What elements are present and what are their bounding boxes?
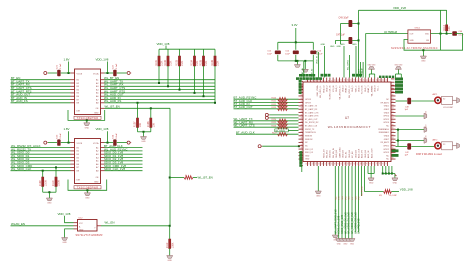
- svg-text:37: 37: [301, 118, 303, 120]
- svg-text:X3: X3: [443, 144, 445, 146]
- svg-text:81: 81: [392, 98, 394, 100]
- IC U4 pin stubs left: [71, 147, 75, 149]
- wire chip2 left WL_SDIO_D1: [11, 157, 71, 159]
- svg-text:TXS0108EPWR: TXS0108EPWR: [77, 186, 99, 189]
- svg-text:BT_AUD_CLK: BT_AUD_CLK: [305, 125, 318, 128]
- resistor series R123: [278, 107, 288, 110]
- power rail VDD_1V8 pullups: [159, 48, 215, 50]
- svg-text:16: 16: [354, 79, 356, 81]
- wire VCCA chip2 to VDD: [105, 142, 114, 144]
- svg-text:R126: R126: [272, 125, 277, 127]
- svg-text:TMSBTMOS: TMSBTMOS: [305, 132, 316, 134]
- svg-text:OSC1: OSC1: [415, 28, 422, 30]
- resistor R113 10K: [446, 25, 448, 31]
- IC U3 pin stubs left: [71, 79, 75, 81]
- svg-text:VBAT_3: VBAT_3: [367, 85, 370, 93]
- IC U7 pin stubs bottom: [307, 162, 309, 167]
- svg-text:52: 52: [309, 163, 311, 165]
- svg-text:95: 95: [392, 144, 394, 146]
- svg-text:DNP if WL1801 is used: DNP if WL1801 is used: [416, 153, 442, 156]
- svg-text:U.FL-R-SMT: U.FL-R-SMT: [443, 107, 454, 109]
- wire chip2 right SDIO_D2_1V8: [105, 160, 143, 162]
- svg-text:VDD_1V8: VDD_1V8: [96, 58, 109, 62]
- wire chip1 OE down to WL_EN: [169, 108, 171, 226]
- wire BT_AUD_CLK into U7: [234, 101, 299, 103]
- IC U3 pin stubs right: [101, 79, 105, 81]
- port stub BT_AUD 2: [265, 116, 268, 119]
- svg-text:SDIO_D2: SDIO_D2: [305, 149, 313, 151]
- svg-text:GPIO4: GPIO4: [383, 116, 389, 118]
- svg-text:GPIO5: GPIO5: [383, 119, 389, 121]
- svg-text:GND: GND: [337, 46, 342, 48]
- svg-text:WL_EN_IN: WL_EN_IN: [333, 147, 335, 158]
- svg-text:44: 44: [301, 141, 303, 143]
- svg-text:26: 26: [386, 79, 388, 81]
- svg-text:WL_AUD_FS: WL_AUD_FS: [104, 99, 121, 103]
- wire RF_ANT2: [396, 145, 408, 147]
- wire WL_GPIO to U7 top: [349, 55, 351, 78]
- svg-text:GPIO6: GPIO6: [383, 122, 389, 124]
- svg-text:GND GND: GND GND: [368, 65, 377, 67]
- capacitor C49 10uF: [358, 23, 360, 25]
- wire chip2 left WL_RS232_TX: [11, 150, 71, 152]
- IC U7 pin stubs top: [307, 78, 309, 83]
- svg-text:83: 83: [392, 104, 394, 106]
- wire WL_EN output: [101, 225, 170, 227]
- wire pulldown join chip2: [43, 191, 56, 193]
- svg-text:RF_ANT2: RF_ANT2: [381, 141, 389, 144]
- wire chip1 right WL_AUD_OUT: [105, 95, 216, 97]
- svg-text:15: 15: [351, 79, 353, 81]
- svg-text:U7: U7: [345, 116, 349, 120]
- wire VDD column: [358, 10, 360, 77]
- svg-text:GND: GND: [352, 44, 357, 46]
- svg-text:NC_1: NC_1: [378, 85, 380, 91]
- svg-text:45: 45: [301, 144, 303, 146]
- resistor R104 2.2K pullup: [194, 49, 196, 56]
- svg-text:62: 62: [341, 163, 343, 165]
- svg-text:WL_SDIO_CLK: WL_SDIO_CLK: [11, 167, 31, 171]
- IC U12 pin stubs: [74, 222, 78, 224]
- wire pulldown join chip1: [138, 131, 151, 133]
- ground below R112: [167, 256, 173, 259]
- svg-text:100K: 100K: [171, 242, 174, 248]
- svg-text:R108: R108: [147, 121, 150, 127]
- wire chip2 left WL_SDIO_D3: [11, 163, 71, 165]
- wire RF_ANT1: [396, 100, 408, 102]
- IC U3 name label TXS0108EPWR: [74, 116, 101, 119]
- svg-text:GND_7: GND_7: [365, 85, 367, 93]
- svg-text:10uF: 10uF: [285, 53, 290, 55]
- IC U12 SN74LVT1T126DBVR body: [78, 220, 98, 232]
- svg-text:WL_RS232_TX: WL_RS232_TX: [339, 85, 341, 100]
- svg-text:SMSON: SMSON: [305, 136, 313, 138]
- port P3: [44, 141, 47, 144]
- wire WL_UART_RX into U7: [234, 123, 299, 125]
- svg-text:GND: GND: [85, 197, 90, 199]
- wire gnd stub U7 bottom-left: [317, 166, 319, 191]
- svg-text:65: 65: [351, 163, 353, 165]
- wire chip1 left BT_UART_CTS: [11, 89, 71, 91]
- svg-text:ANT2: ANT2: [433, 139, 438, 142]
- svg-text:WL_RS232: WL_RS232: [276, 130, 286, 132]
- svg-text:60: 60: [335, 163, 337, 165]
- svg-text:R121: R121: [272, 101, 277, 103]
- svg-text:GND_B4: GND_B4: [349, 149, 351, 158]
- resistor R112 100K: [169, 226, 171, 239]
- wire BT_AUD_FSYNC into U7: [234, 98, 299, 100]
- wire cap to gnd loop: [404, 34, 463, 51]
- svg-text:76: 76: [386, 163, 388, 165]
- svg-text:WL_IRQ: WL_IRQ: [327, 150, 329, 158]
- svg-text:GND: GND: [343, 244, 348, 246]
- capacitor C55 10uF: [277, 42, 279, 50]
- wire U7 bottom WL_SDIO_D1_1V8: [348, 166, 350, 239]
- svg-text:DIR: DIR: [77, 111, 81, 113]
- capacitor C46 0.1uF: [447, 33, 452, 35]
- svg-text:UART_DBG: UART_DBG: [338, 147, 341, 158]
- svg-text:14: 14: [348, 79, 350, 81]
- svg-text:R103: R103: [176, 59, 179, 65]
- resistor series R125: [278, 122, 288, 125]
- svg-text:32: 32: [301, 101, 303, 103]
- resistor series R120: [278, 98, 288, 101]
- svg-text:12: 12: [341, 79, 343, 81]
- svg-text:VDD_C: VDD_C: [355, 85, 357, 92]
- resistor series R127: [278, 133, 288, 136]
- node 1.8V stub chip1: [68, 72, 70, 74]
- wire EN loop vertical: [440, 34, 442, 51]
- wire chip1 right WL_UART_CTS: [105, 89, 216, 91]
- wire chip1 right WL_UART_TX: [105, 82, 216, 84]
- svg-text:10K: 10K: [139, 123, 142, 128]
- svg-text:1%, DNP: 1%, DNP: [389, 195, 398, 197]
- wire C21 to VCCB pin: [61, 72, 71, 74]
- svg-text:C49 10uF: C49 10uF: [339, 18, 350, 20]
- svg-text:58: 58: [328, 163, 330, 165]
- power rail VDD_1V8 top: [359, 9, 447, 11]
- svg-text:RS232_TX: RS232_TX: [305, 129, 315, 131]
- svg-text:85: 85: [392, 111, 394, 113]
- wire BT_AUD_IN into U7: [234, 105, 299, 107]
- capacitor C23 0.1uF: [57, 139, 60, 145]
- svg-text:25: 25: [383, 79, 385, 81]
- svg-text:36: 36: [301, 114, 303, 116]
- svg-text:67: 67: [357, 163, 359, 165]
- resistor R105 2.2K pullup: [203, 49, 205, 56]
- capacitor C21 0.1uF: [57, 70, 60, 76]
- svg-text:8: 8: [328, 80, 330, 81]
- ground OSC: [422, 49, 424, 51]
- svg-text:23: 23: [376, 79, 378, 81]
- svg-text:GND: GND: [141, 141, 146, 143]
- svg-text:WL_GPIO_10: WL_GPIO_10: [349, 85, 351, 98]
- wire WL_UART_TX into U7: [234, 120, 299, 122]
- svg-text:71: 71: [370, 163, 372, 165]
- net label box WL_RS232_RX: [275, 129, 289, 132]
- svg-text:91: 91: [392, 131, 394, 133]
- wire U7 bottom short stub: [361, 166, 363, 196]
- svg-text:NZ2520SB-32.768KHZ-NSA3534C: NZ2520SB-32.768KHZ-NSA3534C: [391, 47, 438, 50]
- svg-text:54: 54: [316, 163, 318, 165]
- svg-text:NC_B1: NC_B1: [346, 151, 348, 158]
- ground brackets above U7: [368, 74, 370, 78]
- wire chip2 right SDIO_CLK_1V8: [105, 170, 143, 172]
- svg-text:R109: R109: [39, 180, 42, 186]
- node 1.8V stub chip2: [68, 142, 70, 144]
- wire chip2 DIR-GND loop: [68, 180, 107, 191]
- wire chip1 right WL_BT_EN: [105, 79, 216, 81]
- svg-text:WL_BT_EN: WL_BT_EN: [105, 105, 120, 109]
- svg-text:SDIO_D3: SDIO_D3: [305, 152, 313, 154]
- svg-text:2.2K: 2.2K: [181, 60, 184, 65]
- svg-text:90: 90: [392, 128, 394, 130]
- wire port to C21: [48, 72, 57, 74]
- net label cluster U7 top-mid: [321, 74, 324, 77]
- svg-text:GND_B6: GND_B6: [365, 149, 367, 158]
- wire chip2 left WL_SDIO_D0: [11, 153, 71, 155]
- svg-text:63: 63: [344, 163, 346, 165]
- svg-text:R101: R101: [155, 59, 158, 65]
- wire port to C23: [48, 142, 57, 144]
- wire chip1 left BT_AUD_IN: [11, 99, 71, 101]
- wire chip1 left BT_EN: [11, 79, 71, 81]
- wire gnd stub right 2: [396, 129, 425, 131]
- svg-text:SMSOW: SMSOW: [305, 139, 313, 141]
- svg-text:10K: 10K: [448, 26, 451, 31]
- svg-text:51: 51: [306, 163, 308, 165]
- svg-text:66: 66: [354, 163, 356, 165]
- net label dots row U7 top: [379, 76, 381, 78]
- wire chip2 left WL_SDIO_CMD: [11, 166, 71, 168]
- svg-text:69: 69: [364, 163, 366, 165]
- svg-text:BT_AUD_CLK: BT_AUD_CLK: [236, 131, 255, 135]
- wire chip1 right WL_AUD_IN: [105, 99, 216, 101]
- wire chip1 left BT_UART_RTS: [11, 92, 71, 94]
- svg-text:BT_UART_TX: BT_UART_TX: [305, 105, 318, 108]
- wire U7 bottom SDIO_CMD_1V8: [341, 166, 343, 239]
- svg-text:19: 19: [364, 79, 366, 81]
- wire chip2 right SDIO_D3_1V8: [105, 163, 143, 165]
- wire chip2 right BT_AUD_CLK: [105, 147, 143, 149]
- svg-text:96: 96: [392, 148, 394, 150]
- wire U7 bottom WL_UART_DBG_1V8: [334, 166, 336, 235]
- wire U7 bottom WL_SDIO_D0_1V8: [344, 166, 346, 239]
- svg-text:GND: GND: [421, 61, 426, 63]
- svg-text:10K: 10K: [152, 123, 155, 128]
- port P1: [44, 72, 47, 75]
- svg-text:GND: GND: [393, 183, 398, 185]
- svg-text:2.2K: 2.2K: [170, 60, 173, 65]
- resistor series R122: [278, 104, 288, 107]
- svg-text:92: 92: [392, 134, 394, 136]
- svg-text:17: 17: [357, 79, 359, 81]
- svg-text:R124: R124: [272, 119, 277, 121]
- svg-text:GPIO2: GPIO2: [383, 149, 389, 151]
- resistor R111 0R: [184, 176, 193, 179]
- wire chip1 left BT_UART_RX: [11, 85, 71, 87]
- svg-text:57: 57: [325, 163, 327, 165]
- wire U7 bottom SDIO_CLK_1V8: [338, 166, 340, 239]
- svg-text:99: 99: [392, 158, 394, 160]
- wire WL_UART_CTS into U7: [234, 126, 299, 128]
- svg-text:VDD_1V8: VDD_1V8: [393, 6, 406, 10]
- svg-text:18: 18: [360, 79, 362, 81]
- svg-text:0.1uF: 0.1uF: [459, 34, 465, 36]
- svg-text:2.2K: 2.2K: [205, 60, 208, 65]
- svg-text:GND: GND: [94, 181, 99, 183]
- svg-text:75: 75: [383, 163, 385, 165]
- svg-text:GND1: GND1: [384, 106, 389, 108]
- wire chip2 right SDIO_D1_1V8: [105, 157, 143, 159]
- svg-text:VBAT_2: VBAT_2: [345, 85, 348, 93]
- wire WLAN_EN input: [11, 225, 74, 227]
- port P2: [127, 72, 130, 75]
- wire chip2 right SDIO_CMD_1V8: [105, 166, 143, 168]
- svg-text:TCXO_IN: TCXO_IN: [362, 85, 364, 94]
- ground U12: [65, 229, 74, 238]
- IC U3 level shifter TXS0108EPWR body: [75, 69, 101, 115]
- ground chip2 pulldowns: [46, 198, 52, 201]
- svg-text:WL_RS232: WL_RS232: [361, 186, 363, 196]
- svg-text:35: 35: [301, 111, 303, 113]
- resistor series R124: [278, 119, 288, 122]
- svg-text:20: 20: [367, 79, 369, 81]
- wire chip1 DIR-GND loop: [68, 110, 105, 120]
- net label boxes U7 right top: [391, 78, 395, 80]
- svg-text:10.0K: 10.0K: [44, 180, 47, 187]
- ground below chip1 pulldowns: [141, 137, 147, 140]
- svg-text:R104: R104: [191, 59, 194, 65]
- svg-text:21: 21: [370, 79, 372, 81]
- svg-text:0.1uF: 0.1uF: [116, 133, 118, 139]
- svg-text:WL_RS232_RX: WL_RS232_RX: [305, 122, 319, 124]
- svg-text:VDD_1V8: VDD_1V8: [157, 42, 170, 46]
- wire OSC VDD to rail: [446, 10, 448, 24]
- wire C24 to port: [117, 142, 127, 144]
- svg-text:74: 74: [380, 163, 382, 165]
- wire to R114 DNP: [365, 166, 384, 192]
- wire U7 bottom WL_SDIO_D2_1V8: [351, 166, 353, 239]
- svg-text:GND: GND: [79, 230, 84, 232]
- svg-text:39: 39: [301, 124, 303, 126]
- resistor series R126: [278, 126, 288, 129]
- wire gnd stub right 1: [396, 115, 425, 117]
- svg-text:WL_GPIO: WL_GPIO: [348, 60, 350, 70]
- svg-text:VCCA: VCCA: [93, 72, 99, 75]
- svg-text:XTALP: XTALP: [358, 68, 361, 75]
- svg-text:VDD_IO: VDD_IO: [323, 85, 325, 93]
- svg-text:R110: R110: [52, 180, 55, 186]
- svg-text:AUD_OUT: AUD_OUT: [370, 148, 373, 158]
- svg-text:2: 2: [309, 80, 311, 81]
- svg-text:82: 82: [392, 101, 394, 103]
- svg-text:VCCB: VCCB: [77, 73, 83, 75]
- svg-text:VIO_IN: VIO_IN: [333, 85, 335, 92]
- svg-text:GND: GND: [167, 260, 172, 262]
- svg-text:GND: GND: [350, 244, 355, 246]
- wire gnd stub right 3: [396, 140, 425, 142]
- svg-text:31: 31: [301, 98, 303, 100]
- svg-text:GPIO1: GPIO1: [383, 145, 389, 147]
- svg-text:64: 64: [348, 163, 350, 165]
- svg-text:53: 53: [312, 163, 314, 165]
- svg-text:0.1uF: 0.1uF: [60, 133, 62, 139]
- svg-text:C47 1uF: C47 1uF: [336, 34, 345, 36]
- svg-text:GND_B2: GND_B2: [336, 149, 338, 158]
- wire BT_AUD_CLK row: [236, 133, 299, 135]
- svg-text:RSENRADG: RSENRADG: [378, 128, 389, 131]
- svg-text:GND: GND: [410, 40, 415, 42]
- IC U4 name label TXS0108EPWR: [74, 186, 101, 189]
- net label boxes U7 right bottom: [392, 149, 399, 152]
- svg-text:VCC: VCC: [79, 223, 84, 225]
- IC U4 pin stubs right: [101, 147, 105, 149]
- svg-text:10: 10: [335, 79, 337, 81]
- svg-text:BT_AUD_OUT: BT_AUD_OUT: [305, 118, 318, 121]
- svg-text:94: 94: [392, 141, 394, 143]
- wire chip2 right SDIO_D0_1V8: [105, 153, 143, 155]
- wire 3V3 rail to U7 pins: [303, 61, 305, 78]
- svg-text:87: 87: [392, 118, 394, 120]
- svg-text:SN74LVT1T126DBVR: SN74LVT1T126DBVR: [76, 234, 103, 237]
- svg-text:GPIO3: GPIO3: [383, 152, 389, 154]
- capacitor C47 1uF: [358, 39, 360, 41]
- svg-text:0.1uF: 0.1uF: [60, 63, 62, 69]
- resistor R110 pulldown: [55, 166, 57, 168]
- capacitor C54 10uF: [295, 42, 297, 50]
- svg-text:NC_B2: NC_B2: [352, 151, 354, 158]
- wire chip2 left WL_SDIO_D2: [11, 160, 71, 162]
- resistor R102 2.2K pullup: [167, 49, 169, 56]
- wire C23 to VCCB: [61, 142, 71, 144]
- svg-text:VDD: VDD: [425, 34, 430, 36]
- svg-text:R120: R120: [272, 97, 277, 99]
- port stub row 146: [258, 145, 261, 148]
- IC U7 WL1835MODGBMOCT body: [303, 82, 391, 162]
- wire chip1 left BT_AUD_OUT: [11, 95, 71, 97]
- ground chip2: [84, 193, 90, 196]
- power rail 3.3V: [278, 41, 314, 43]
- wire NC stubs U7 top: [359, 62, 361, 78]
- svg-text:VCCB: VCCB: [77, 143, 83, 145]
- svg-text:BT_AUD_OUT: BT_AUD_OUT: [234, 105, 253, 109]
- svg-text:84: 84: [392, 108, 394, 110]
- ground rail caps: [278, 60, 314, 62]
- ground bracket U7 bottom left: [367, 166, 369, 174]
- capacitor C48 1pF: [407, 98, 411, 104]
- svg-text:VDD_1V8: VDD_1V8: [400, 188, 413, 192]
- svg-text:GND_5: GND_5: [352, 85, 354, 93]
- svg-text:GND2: GND2: [384, 109, 389, 111]
- svg-text:XTALM: XTALM: [360, 68, 363, 75]
- wire chip1 left BT_AUD_FS: [11, 102, 71, 104]
- resistor R103 2.2K pullup: [179, 49, 181, 56]
- oscillator OSC1 body: [408, 30, 431, 43]
- svg-text:2.2K: 2.2K: [196, 60, 199, 65]
- node OE branch: [169, 177, 171, 179]
- node VDD_1V8 stub chip2: [107, 142, 109, 144]
- svg-text:GND_VSSA: GND_VSSA: [316, 85, 319, 97]
- capacitor C22 0.1uF: [113, 70, 116, 76]
- wire VIO stub U7 top: [318, 52, 320, 78]
- svg-text:BT_AUD_FS: BT_AUD_FS: [11, 99, 28, 103]
- wire gnd tie vertical: [397, 130, 399, 147]
- IC U7 pin stubs left: [299, 85, 304, 87]
- wire BT_AUD_OUT into U7: [234, 108, 299, 110]
- wire VCCA to VDD: [105, 72, 114, 74]
- svg-text:WL_EN: WL_EN: [105, 221, 115, 225]
